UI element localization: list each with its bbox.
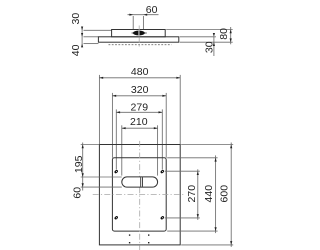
svg-text:320: 320 [131,84,149,96]
svg-text:60: 60 [71,187,83,199]
left dim line plan (195/60) [82,143,84,191]
dimension 320 line [112,95,166,97]
arrow 279 right [159,111,163,113]
horizontal centerline plan [93,194,186,196]
arrow 440 top [215,158,217,162]
arrow left 36.8 [81,33,83,37]
svg-text:40: 40 [70,44,82,56]
svg-text:270: 270 [186,185,198,203]
extension line 210 right [157,125,159,175]
extension line 480 left [98,75,100,145]
slot divider line 1 [140,177,142,187]
dot 1 [129,234,130,235]
extension 440 bottom (inner rect bottom) [167,230,217,232]
hole bottom-left [114,215,119,220]
hole bottom-right [160,215,165,220]
svg-text:195: 195 [73,155,85,173]
svg-text:480: 480 [131,66,149,78]
dimension 600: line [230,143,232,247]
extension outer-top-left to dim [81,144,100,146]
arrow left 43.6 [81,44,83,48]
arrow 195 top [82,145,84,149]
dimension 60 extension line right [142,16,144,29]
arrow 600 top [230,145,232,149]
centerline through fitting [138,30,140,37]
hole top-right [160,169,165,174]
fitting crosshair line [132,32,147,34]
arrow 60 left [129,14,133,16]
fitting white slot window [138,31,139,36]
hidden dashed line below plate [109,44,172,46]
svg-text:440: 440 [203,185,215,203]
dimension line left of side view [81,28,83,48]
dimension 440: line [215,155,217,233]
arrow 210 right [154,127,158,129]
arrow 600 bottom [230,241,232,245]
arrow r30 top [213,33,215,37]
extension line 210 left [121,125,123,175]
arrow 210 left [122,127,126,129]
arrow 195 bottom [82,173,84,177]
wire: extension line box top to left dim [84,29,112,31]
extension slot top to left dim [81,176,122,178]
svg-text:80: 80 [218,28,230,40]
dimension 30 right: dim line [213,37,215,56]
dot 2 [148,234,149,235]
extension 440 top (inner rect top) [167,157,217,159]
slot (stadium) with divider [122,177,158,187]
dot 3 [129,242,130,243]
arrow 279 left [116,111,120,113]
box (mounting frame) side view [112,30,166,37]
arrow 440 bottom [215,227,217,231]
extension line 320 right [165,93,167,158]
hole top-left [114,169,119,174]
wire: extension line box top to right 80-dim [166,29,233,31]
wire: extension line plate top to left dim [84,36,99,38]
dimension 60 (top): dim line [128,14,159,16]
dimension 210 line [122,127,158,129]
extension slot bottom to left dim [81,186,122,188]
slot divider line 2 [142,177,144,187]
wire: extension line plate bottom to right 80-dim [180,41,233,43]
outer plate rectangle plan [99,145,180,245]
wire: extension line below plate left [84,43,99,45]
svg-text:30: 30 [204,41,216,53]
arrow 320 right [162,95,166,97]
extension line 320 left [111,93,113,158]
dot 4 [148,242,149,243]
vertical centerline plan [139,141,141,250]
extension 270 top (top hole row) [165,170,200,172]
centerline side view vertical [138,26,140,48]
plate side view [98,37,178,42]
dimension 80 right: dim line [230,27,232,44]
extension line 480 right [179,75,181,145]
svg-text:279: 279 [131,102,149,114]
arrow 320 left [112,95,116,97]
dimension 279 line [116,111,162,113]
arrow 270 top [197,171,199,175]
extension 600 bottom (outer rect bottom) [181,244,233,246]
arrow 270 bottom [197,214,199,218]
extension 270 bottom (bottom hole row) [165,217,200,219]
arrow r30 bottom [213,42,215,46]
arrow 60 bottom [82,183,84,187]
svg-text:60: 60 [146,4,158,16]
inner panel rectangle plan [112,158,166,231]
arrow 80 bottom [230,38,232,42]
dimension 480 line [99,77,180,79]
svg-text:600: 600 [218,185,230,203]
dimension 270: line [197,169,199,220]
arrow 480 left [99,77,103,79]
svg-text:30: 30 [70,13,82,25]
fitting ellipse (black) [133,31,144,35]
arrow left 30.3 [81,27,83,31]
arrow 60 right [143,14,147,16]
wire: extension line plate top to right 30-dim [180,36,216,38]
arrow 80 top [230,30,232,34]
dimension 60 extension line left [132,16,134,29]
extension line 279 left [115,109,117,169]
svg-text:210: 210 [130,116,148,128]
extension 600 top (outer rect top) [181,144,233,146]
arrow 480 right [176,77,180,79]
extension line 279 right [161,109,163,169]
